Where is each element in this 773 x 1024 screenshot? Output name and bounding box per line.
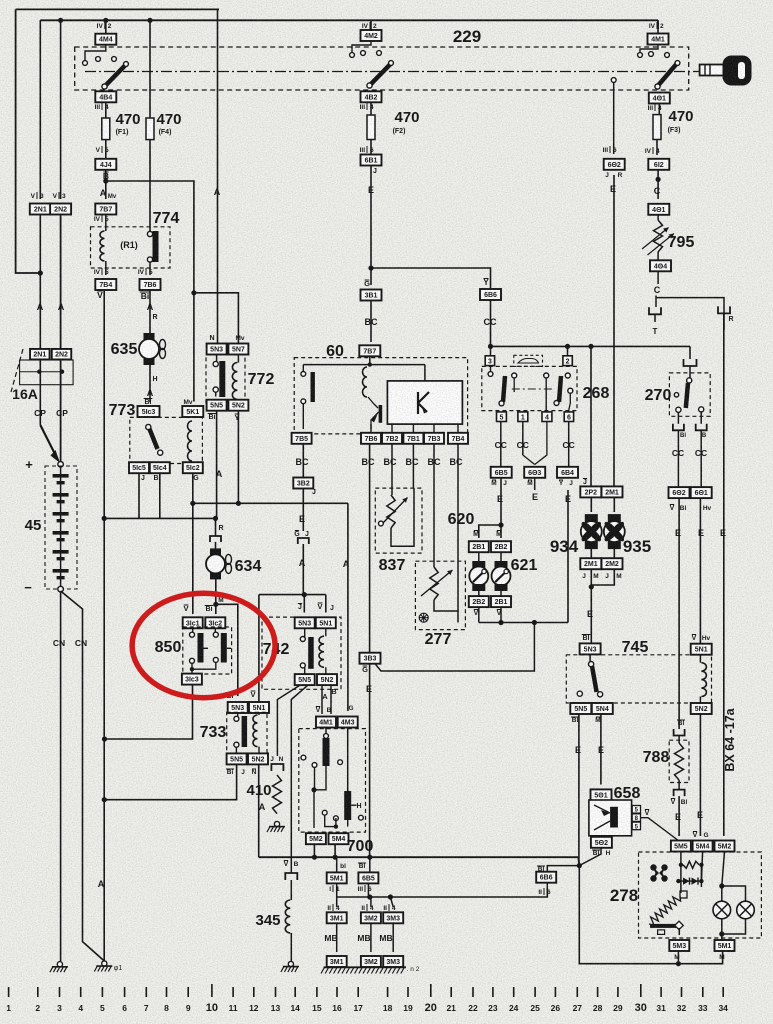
connector 4B2 — [361, 91, 382, 102]
bracket R — [718, 306, 730, 313]
dashed box 700 — [299, 729, 366, 833]
connector 2M1 below fan — [590, 548, 592, 559]
wire 2P2 feed from CC bus — [590, 346, 592, 486]
relay 742 contact bar — [304, 628, 306, 637]
wire bus742 left corner down to 733 5N1 — [258, 595, 260, 703]
connector 5N2 of 772 — [228, 400, 248, 411]
dashed box 277 — [415, 561, 465, 629]
dashed box 788 — [669, 740, 689, 782]
ground of 410 — [274, 821, 279, 826]
dashed box 733 — [227, 712, 267, 754]
wires fans join — [591, 569, 614, 585]
wire bus corner down to 4M1 — [657, 20, 659, 29]
ground phi1 — [102, 961, 107, 966]
connector 2B2 below pump1 — [478, 591, 480, 596]
switch arm 745 — [589, 654, 591, 662]
fuse F2 470 — [367, 115, 375, 140]
wire main supply bus y=20 — [40, 19, 658, 21]
wire CP diagonal to battery plus — [40, 425, 58, 460]
dashed box relay 774 — [91, 227, 171, 268]
solenoid 2 inside 700 — [347, 728, 349, 792]
wire 733 5N5 to y797 bus — [104, 764, 236, 799]
box pin 2 of 268 — [563, 356, 572, 366]
relay 772 coil — [237, 355, 239, 363]
connector 4M1 of 700 — [316, 717, 336, 728]
wire motor 634 to 3Ic2 — [215, 578, 217, 614]
connector 3Ic3 — [182, 674, 202, 685]
connector 5N1 of 733 — [249, 702, 269, 713]
connector 5N2 of 733 — [248, 753, 268, 764]
diodes inside 278 — [678, 880, 701, 882]
dashed box ignition switch assembly 229 — [75, 47, 689, 90]
connector 5N1 of 742 — [316, 617, 336, 628]
wire 2N1 down — [39, 215, 41, 350]
wire 5N2-Y down — [237, 411, 239, 504]
wire 270 outputs down — [677, 430, 679, 487]
connector 5Ic4 — [150, 462, 170, 473]
wire 7B4-V down the left side — [103, 290, 105, 961]
switch 268 left — [490, 366, 492, 372]
connector 6T3 — [524, 467, 545, 478]
switch 773 connector 5Ic3 — [138, 406, 160, 417]
connector 5M2 of 700 — [306, 833, 326, 844]
resistor inside 278 — [683, 861, 699, 868]
connector 4B1 — [649, 93, 670, 104]
wire CN2 battery diagonal — [61, 591, 105, 961]
bracket T — [649, 307, 661, 314]
connector 3M2 ground row — [361, 956, 381, 967]
wire CN1 battery to ground — [60, 592, 62, 961]
pump return bus y622 — [478, 607, 480, 622]
connector 3B2 — [293, 478, 313, 489]
pin boxes 5 1 4 6 of 268 — [497, 412, 507, 422]
connector 5B2 of 658 — [591, 837, 612, 848]
connector 2B1 pump1 — [469, 541, 489, 552]
bus y897 — [337, 888, 548, 897]
wire 5N2 down to 5M4 — [699, 714, 701, 836]
connector 3Ic2 — [205, 617, 225, 628]
ignition switch contacts right — [640, 45, 658, 52]
junction 634/3Ic2 branch — [213, 602, 218, 607]
wire 5M4 to bus857 — [334, 844, 336, 857]
wires 742 outputs diagonals — [277, 685, 300, 756]
internal bus of 60 — [369, 356, 371, 364]
wire Mv node down to 5K1 — [193, 293, 195, 402]
junction bus/2N2 column — [58, 18, 63, 23]
switch 268 right — [544, 373, 549, 378]
transistor inside 658 — [610, 807, 618, 828]
connector 6B4 — [557, 467, 578, 478]
wire lamps join — [721, 919, 723, 940]
switch arm 270 — [687, 378, 692, 383]
wire 5Ic2-G down to 3Ic1 with T at bus503 — [192, 473, 194, 614]
dashed box 837 — [375, 488, 422, 553]
wire 658 pin to 5M5 diagonal — [641, 818, 680, 841]
wire top-left feed bus — [16, 8, 219, 10]
wire 6B2-E line down to 2M1 — [613, 175, 615, 487]
wires 5M5 5M4 into 278 — [680, 852, 682, 894]
relay contacts 850 left bar — [192, 628, 194, 633]
connector 2N2 — [60, 20, 62, 199]
wire ACC to 6B2 — [613, 83, 615, 155]
ground battery CN1 — [57, 962, 62, 967]
wire CC bus corner down to 270 — [689, 346, 691, 359]
wire 5B2 to junction y865 — [579, 848, 601, 866]
connector 5N5 of 733 — [227, 753, 247, 764]
connector 5M4 of 700 — [329, 833, 349, 844]
dashed box 270 — [669, 373, 710, 416]
bus 742 feed y594 — [259, 594, 326, 596]
fuse 16A connector 2N1 — [30, 349, 50, 360]
heater serpentine inside 278 — [649, 896, 681, 925]
connector 5B1 of 658 — [591, 789, 612, 800]
relay contact bar of 774 — [147, 231, 152, 236]
dashed bump with car icon 268 — [514, 355, 543, 366]
X mark inside 278 — [650, 864, 667, 881]
dashed box 850 — [183, 627, 232, 674]
connector 4B4 second — [650, 260, 671, 271]
wire branch to 733 coil feed — [216, 604, 238, 696]
ground rail MB — [324, 966, 407, 968]
connector 5N4 of 745 — [592, 703, 613, 714]
inductor 345 — [290, 880, 292, 900]
connector 2B1 below pump2 — [500, 591, 502, 596]
dashed box 742 — [262, 617, 341, 689]
bus y503 — [193, 502, 348, 504]
resistor 788 top bracket — [674, 729, 685, 736]
thermistor 277 — [433, 444, 435, 567]
resistor 788 — [678, 736, 680, 744]
connector 2M2 below fan — [613, 548, 615, 559]
connector 4J4 — [95, 159, 116, 170]
connector 7B2 output of 60 — [391, 424, 393, 433]
relay 772 contact bar — [216, 355, 218, 365]
stubs down to 3M row — [336, 897, 338, 907]
battery cells — [60, 467, 62, 587]
connector 3Ic1 — [183, 617, 203, 628]
wire 3B3 diagonal to y671 line — [375, 623, 534, 672]
ignition key icon — [700, 56, 752, 86]
relay contact inside 60 — [302, 365, 304, 372]
connector 5N2 of 745 — [691, 703, 712, 714]
wire bus857 corner down to junction — [578, 857, 579, 865]
pump motor 621 left — [478, 552, 480, 561]
ignition switch arm middle — [371, 65, 390, 85]
wire A-line right from bus503 corner — [347, 503, 349, 711]
wire 6B4-E down to pump bus — [567, 490, 569, 623]
junction y739 node — [102, 736, 107, 741]
switch 270 outputs — [677, 412, 679, 424]
junction 6B1 branch to 6B6 — [368, 265, 373, 270]
wire left margin drop to 16A column — [16, 9, 41, 273]
red highlight ellipse around 850 — [132, 593, 275, 697]
wire 6B1-E down to 3B1 — [370, 166, 372, 286]
fuse F4 470 — [146, 118, 154, 140]
wire 5Ic4 down to bus518 — [159, 473, 161, 518]
connector 6T2 — [669, 487, 690, 498]
relay contacts 850 right bar — [214, 628, 216, 633]
connector 5N2 of 742 — [317, 674, 337, 685]
ignition switch contacts middle — [352, 41, 371, 52]
bottom return bus — [579, 866, 722, 964]
wire CP lines — [39, 360, 41, 426]
dashed box battery 45 — [45, 466, 77, 589]
transistor inside 60 — [368, 397, 378, 408]
junction right node y865 — [577, 863, 582, 868]
bracket connector under 3B2 — [298, 538, 309, 544]
connector 6I2 — [648, 159, 669, 170]
wire junction to 6B6 lower — [547, 866, 579, 872]
wire 3Ic3 down to y739 bus — [105, 685, 193, 739]
connector 3B1 — [361, 290, 382, 301]
pin boxes of 658 — [632, 806, 640, 814]
junction 4J4 output node B — [103, 178, 108, 183]
wires 5N2 down to 4M1 — [321, 685, 323, 714]
relay 733 contact bar — [237, 713, 239, 717]
ground of 345 — [288, 961, 293, 966]
wire 6T2-E down to 788 — [678, 498, 680, 729]
dashed box 268 — [482, 366, 577, 410]
slider bar inside 278 — [650, 924, 678, 928]
wire 3B3-E down to bottom — [369, 664, 371, 858]
dashed box 773 — [130, 417, 203, 463]
relay coil inside 60 — [363, 367, 368, 397]
dashed box 278 — [639, 852, 762, 938]
wire 277 right side — [434, 600, 458, 623]
fan icon of 277 — [419, 613, 429, 623]
connector 3M2 — [361, 912, 381, 923]
fuse F3 470 — [653, 115, 661, 140]
bus y518 to motor 634 — [104, 517, 215, 519]
dash-dot link in 268 — [512, 388, 555, 390]
ignition switch arm right — [659, 65, 677, 86]
wire bus742 right corner down to 5N1 — [325, 595, 327, 613]
relay 742 coil — [325, 628, 327, 636]
fuse 16A blade dashes — [11, 349, 23, 392]
connector 7B1 output of 60 — [412, 424, 414, 433]
wire A-line from top corner to 772 5N3 — [217, 9, 219, 343]
CC bus y346 — [491, 345, 691, 347]
wires 850 outputs to 3Ic3 — [192, 662, 216, 669]
wire dot down to 5N3 742 — [303, 595, 305, 613]
paper noise overlay — [0, 0, 1, 1]
wire 7B6 to motor 635 — [149, 290, 151, 339]
connector 7B6 output of 60 — [370, 424, 372, 433]
rheostat 795 — [657, 215, 659, 220]
relay 733 coil — [258, 713, 260, 715]
fuse 16A connector 2N2 — [52, 349, 72, 360]
wire 2N2 down — [60, 215, 62, 350]
connector 2M1 — [602, 486, 623, 497]
connector 4B1 second — [648, 204, 669, 215]
fan 935 — [613, 497, 615, 512]
contact square inside 278 — [680, 891, 687, 898]
junction left margin join — [38, 270, 43, 275]
connector 5M1 bottom — [715, 940, 735, 951]
wire 5N5-A down to 634 junction — [216, 411, 218, 519]
lamp 2 — [737, 901, 755, 919]
wire 6T1-Hv down to 745 5N1 — [699, 498, 701, 644]
junction pump feed split — [498, 522, 503, 527]
connector 5N3 of 733 — [228, 702, 248, 713]
wire 6B5-E to pumps — [500, 478, 502, 525]
connector 5Ic2 — [183, 462, 203, 473]
dashed box 772 — [206, 355, 245, 403]
fan 934 — [590, 497, 592, 512]
connector 3B3 — [360, 653, 381, 664]
ACC contact circle right — [611, 78, 616, 83]
fuse F4 column wire — [149, 20, 151, 118]
wire 733 5N2 down to bus857 — [258, 764, 260, 857]
motor 634 — [210, 548, 221, 555]
K-box inside 60 — [387, 381, 462, 424]
wire 7B6-BC down to 3B3 — [369, 444, 371, 652]
wire 5Ic5 down to bus518 — [138, 473, 140, 518]
dashed box ECU 60 — [294, 358, 467, 434]
connector 4M3 of 700 — [338, 717, 358, 728]
connector 7B4 output of 60 — [457, 424, 459, 433]
motor 635 — [144, 333, 155, 340]
junction 2P2 feed — [588, 344, 593, 349]
connector 6T1 — [691, 487, 712, 498]
potentiometer 837 — [391, 444, 393, 495]
bus y857 — [259, 856, 579, 858]
junction y797 node — [102, 797, 107, 802]
junction bus518 left end — [102, 516, 107, 521]
connector 5N3 of 745 — [580, 643, 601, 654]
connector 5N5 of 745 — [570, 703, 591, 714]
connector 7B7 heater relay feed — [95, 204, 116, 215]
wire 3B2 to A node — [302, 489, 304, 532]
fuse 16A body — [20, 360, 74, 385]
connector 6B6 — [480, 289, 501, 300]
connector 6B6 lower — [536, 872, 556, 883]
wire 7B5 BC to 3B2 — [302, 444, 304, 478]
wire motor 634 feed — [215, 518, 217, 536]
wire R line down right margin — [723, 313, 725, 836]
bottom scale ruler — [6, 984, 728, 1014]
wires 268 pins down — [500, 422, 502, 468]
connector 2N1 — [39, 20, 41, 199]
connector 2P2 — [580, 486, 601, 497]
wire heater to 5M3 — [678, 928, 680, 935]
connector 5M1 — [336, 857, 338, 873]
pump motor 621 right — [500, 552, 502, 561]
junction bus518 at motor 634 column — [213, 516, 218, 521]
fuse F1 470 — [102, 118, 110, 140]
connector 3M3 ground row — [383, 956, 403, 967]
wire 345 feed stub — [290, 869, 292, 873]
connector 5N5 of 772 — [207, 400, 227, 411]
connector 6B5 — [491, 467, 512, 478]
wire 788 to 5M5 — [678, 796, 680, 836]
wire Mv branch node to 5N7 — [191, 290, 196, 295]
ignition switch contact wiring left — [85, 45, 106, 60]
solenoid 1 inside 700 — [325, 728, 327, 737]
relay box 658 — [589, 800, 632, 836]
connector 5N5 of 742 — [295, 674, 315, 685]
connector 2B2 pump2 — [491, 541, 511, 552]
dashed box 745 — [566, 655, 711, 703]
junction bus/F4 column — [147, 18, 152, 23]
lamp 1 — [713, 901, 731, 919]
junction bus/4M4 column — [103, 18, 108, 23]
wire C split to T and R — [655, 296, 657, 308]
connector 6B5 bottom — [369, 857, 371, 873]
connector 5N3 of 742 — [295, 617, 315, 628]
resistor 410 — [273, 775, 282, 814]
junction 5N2-Y at bus503 — [236, 501, 241, 506]
ignition switch arm left — [106, 66, 125, 86]
connector 5N1 of 745 — [691, 644, 712, 655]
junction solenoid1 to 5M2 — [311, 787, 316, 792]
connector 7B3 output of 60 — [433, 424, 435, 433]
dash-dot mechanical link line of 229 — [85, 71, 699, 73]
switch arm 773 — [146, 424, 151, 429]
wire 745 5N4-E down to 658 — [600, 714, 602, 785]
connector 3M1 — [327, 912, 347, 923]
connector 5M3 — [669, 940, 689, 951]
junction under 6I2 — [656, 177, 661, 182]
connector 3M3 — [383, 912, 403, 923]
wire 5M2 to bus857 — [313, 844, 315, 857]
wire 745 5N5-E down to junction y865 — [578, 714, 580, 866]
connector 7B7 into box 60 — [359, 345, 380, 356]
connector 5Ic5 — [129, 462, 149, 473]
connector 4B4 — [95, 91, 116, 102]
relay coil R1 of 774 — [105, 215, 107, 232]
connector 7B5 output of 60 — [292, 433, 312, 444]
connector 3M1 ground row — [327, 956, 347, 967]
wire from node B to Mv branch — [106, 181, 194, 293]
box pin 3 of 268 — [485, 356, 494, 366]
wire lamps feed — [722, 852, 725, 887]
